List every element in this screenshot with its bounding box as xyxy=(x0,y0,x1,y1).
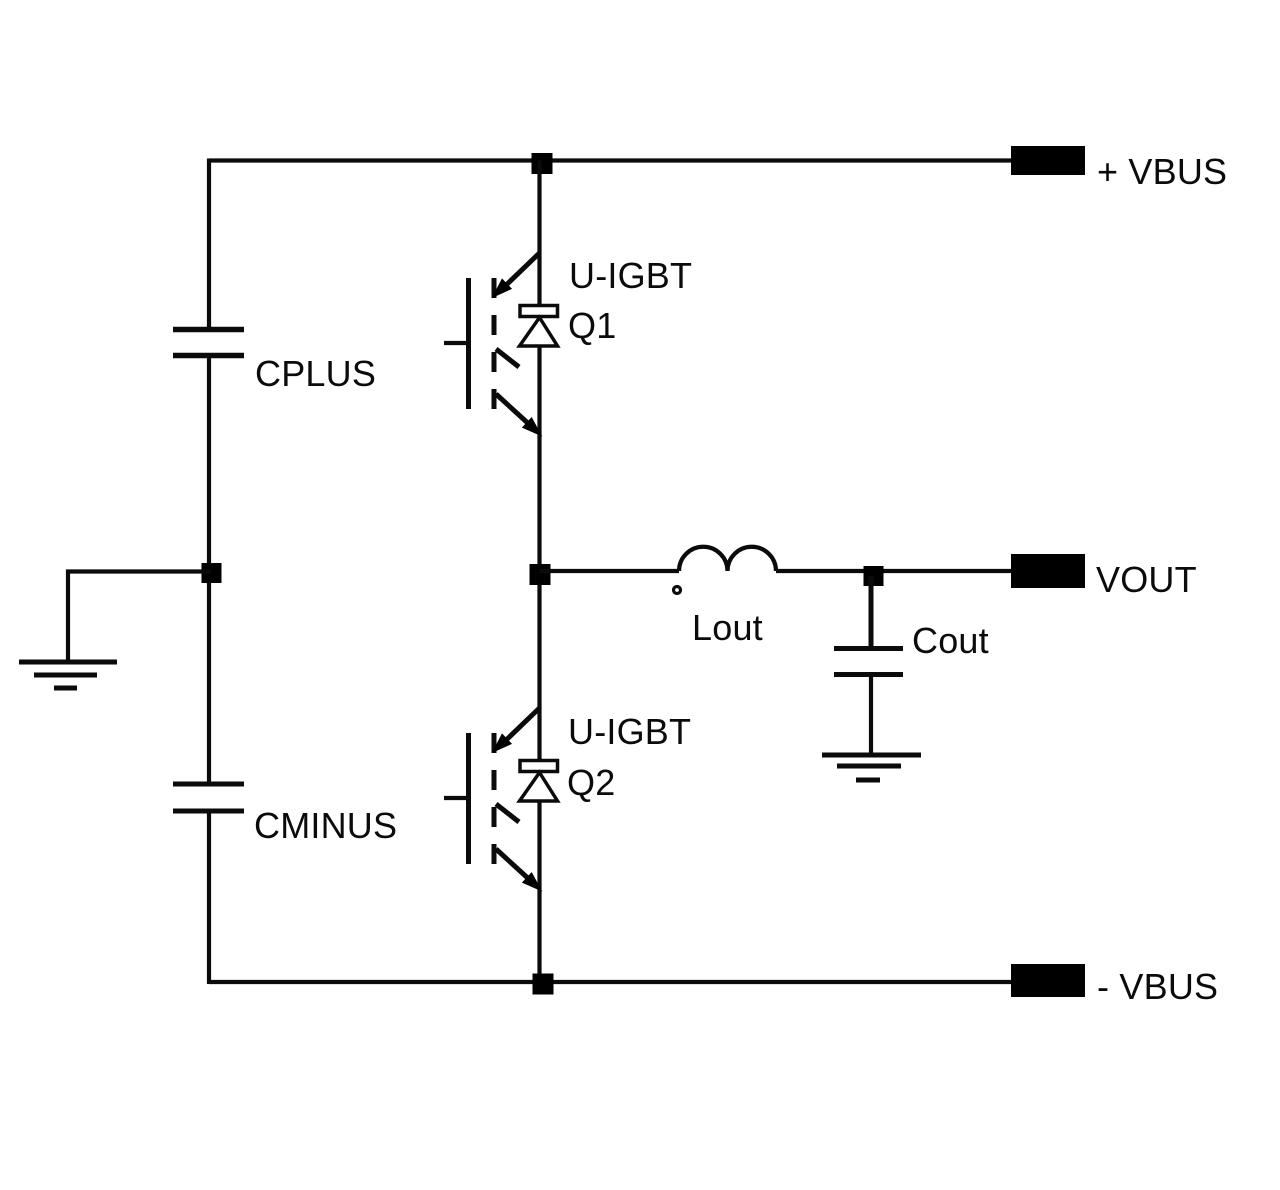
capacitor CPLUS xyxy=(173,330,244,356)
svg-text:CMINUS: CMINUS xyxy=(254,805,397,846)
emitter arrowhead Q2 xyxy=(524,874,540,889)
junction bottom middle xyxy=(533,974,554,995)
wire Cout stem lower xyxy=(869,677,873,753)
svg-text:+ VBUS: + VBUS xyxy=(1097,151,1227,192)
svg-text:- VBUS: - VBUS xyxy=(1097,966,1218,1007)
phase dot Lout xyxy=(674,587,681,594)
emitter diagonal Q1 xyxy=(496,394,531,426)
transistor Q1 (U-IGBT) xyxy=(444,253,540,434)
wire left vertical lower xyxy=(207,814,211,985)
transistor Q2 (U-IGBT) xyxy=(444,708,540,889)
wire ground branch xyxy=(68,572,211,661)
capacitor Cout xyxy=(834,649,903,675)
diode D1 (antiparallel) xyxy=(520,306,558,347)
body stub Q1 xyxy=(496,349,519,367)
inductor Lout xyxy=(679,547,776,571)
collector arrowhead Q2 xyxy=(495,736,510,751)
gate lead Q2 xyxy=(444,796,469,800)
channel dashed line Q1 xyxy=(492,278,497,409)
wire left vertical middle xyxy=(207,358,211,782)
collector diagonal Q2 xyxy=(502,708,540,744)
junction output node xyxy=(864,566,884,586)
emitter arrowhead Q1 xyxy=(524,419,540,434)
diode D2 (antiparallel) xyxy=(520,761,558,802)
wire middle horizontal right xyxy=(776,569,1012,573)
wire middle vertical segment 3 xyxy=(537,800,541,982)
channel dashed line Q2 xyxy=(492,733,497,864)
junction top middle xyxy=(532,153,553,174)
wire bottom rail xyxy=(209,980,1012,984)
terminal +VBUS xyxy=(1011,146,1085,175)
node left midpoint xyxy=(202,563,222,583)
gate line Q1 xyxy=(466,278,471,409)
svg-text:U-IGBT: U-IGBT xyxy=(569,255,692,296)
gate line Q2 xyxy=(466,733,471,864)
terminal VOUT xyxy=(1011,554,1085,588)
emitter diagonal Q2 xyxy=(496,849,531,881)
ground left xyxy=(19,662,117,688)
terminal -VBUS xyxy=(1011,964,1085,997)
svg-text:VOUT: VOUT xyxy=(1096,559,1197,600)
wire middle vertical segment 1 xyxy=(537,161,541,305)
wire middle horizontal left xyxy=(540,569,680,573)
wire Cout stem upper xyxy=(869,576,874,646)
svg-text:Q1: Q1 xyxy=(568,305,616,346)
wire middle vertical segment 2 xyxy=(537,345,541,761)
wire left vertical upper xyxy=(207,159,211,328)
ground at Cout xyxy=(822,755,921,780)
capacitor CMINUS xyxy=(173,784,244,811)
body stub Q2 xyxy=(496,804,519,822)
wire top rail xyxy=(209,158,1012,162)
svg-text:Cout: Cout xyxy=(912,620,989,661)
gate lead Q1 xyxy=(444,341,469,345)
svg-text:Q2: Q2 xyxy=(567,762,615,803)
svg-text:Lout: Lout xyxy=(692,607,763,648)
junction middle node xyxy=(530,564,551,585)
svg-text:U-IGBT: U-IGBT xyxy=(568,711,691,752)
collector arrowhead Q1 xyxy=(495,281,510,296)
svg-text:CPLUS: CPLUS xyxy=(255,353,376,394)
collector diagonal Q1 xyxy=(502,253,540,289)
